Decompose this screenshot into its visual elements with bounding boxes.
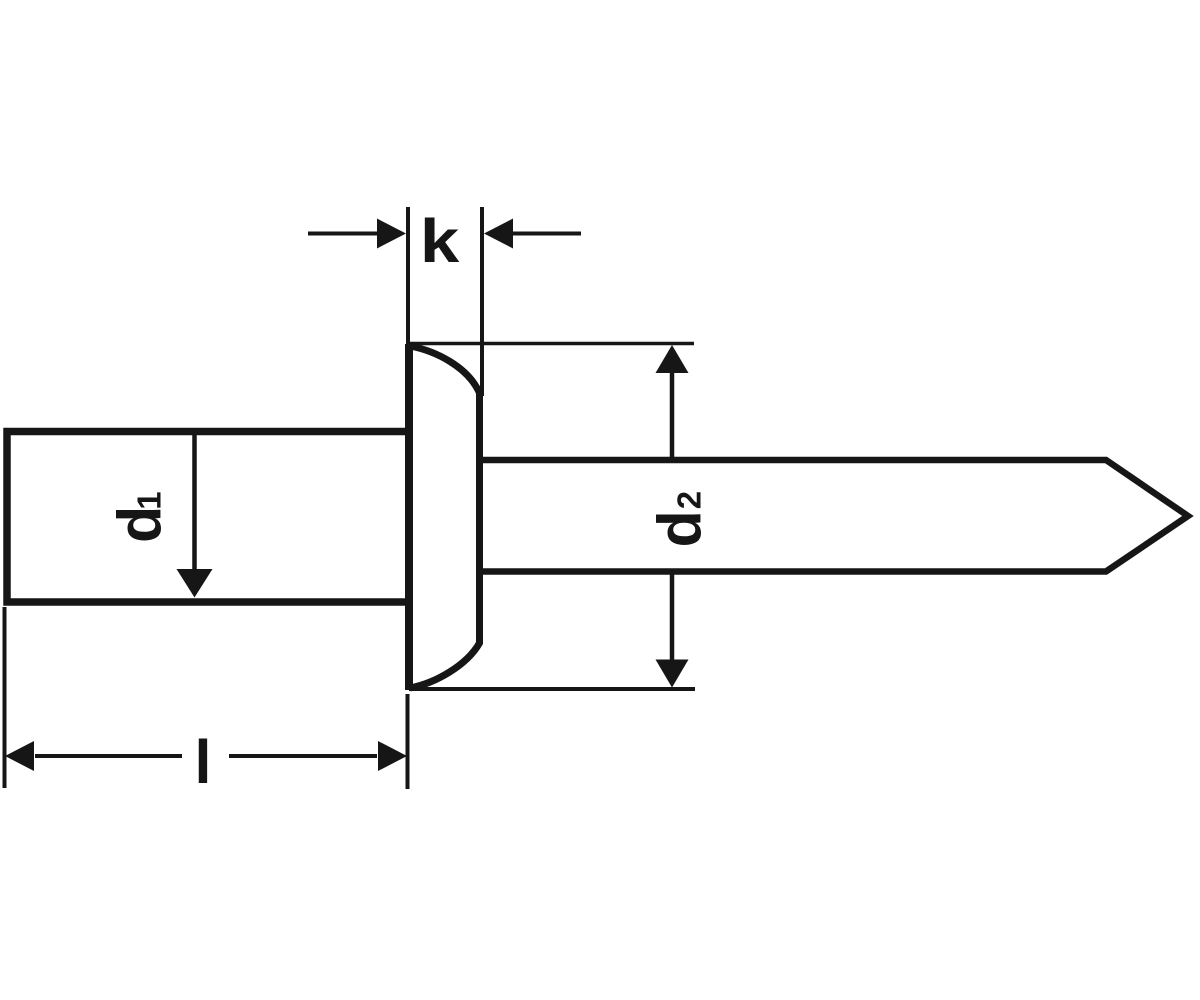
d2 dimension: bottom extension line — [409, 687, 695, 691]
rivet head outline (dome curve) — [410, 346, 480, 688]
d2 dimension: down arrowhead — [656, 660, 689, 688]
l dimension: right arrowhead — [378, 741, 407, 771]
svg-text:l: l — [195, 728, 212, 796]
k dimension: right extension line — [480, 207, 484, 396]
k dimension: left leader line — [308, 232, 379, 236]
rivet head left face — [405, 344, 413, 690]
rivet body (sleeve) rectangle — [7, 432, 409, 603]
k dimension: right arrowhead — [484, 219, 513, 249]
l dimension: right leader line — [229, 754, 377, 758]
l dimension: left extension line — [3, 607, 7, 788]
d1 dimension: down arrowhead — [177, 569, 213, 598]
l dimension: right extension line — [406, 694, 410, 789]
d2 dimension: upper vertical line — [670, 370, 675, 460]
k dimension: right leader line — [510, 232, 581, 236]
mandrel stem with pointed tip — [480, 460, 1188, 572]
svg-text:d1: d1 — [106, 491, 174, 543]
l dimension: left leader line — [35, 754, 182, 758]
svg-text:k: k — [420, 207, 460, 275]
d1 dimension: vertical line — [192, 434, 197, 572]
k dimension: left extension line — [406, 207, 410, 345]
l dimension: left arrowhead — [5, 741, 34, 771]
d2 dimension: up arrowhead — [656, 345, 689, 373]
d2 dimension: lower vertical line — [670, 572, 675, 662]
svg-text:d2: d2 — [646, 491, 714, 548]
k dimension: left arrowhead — [377, 219, 406, 249]
d2 dimension: top extension line — [409, 342, 694, 346]
